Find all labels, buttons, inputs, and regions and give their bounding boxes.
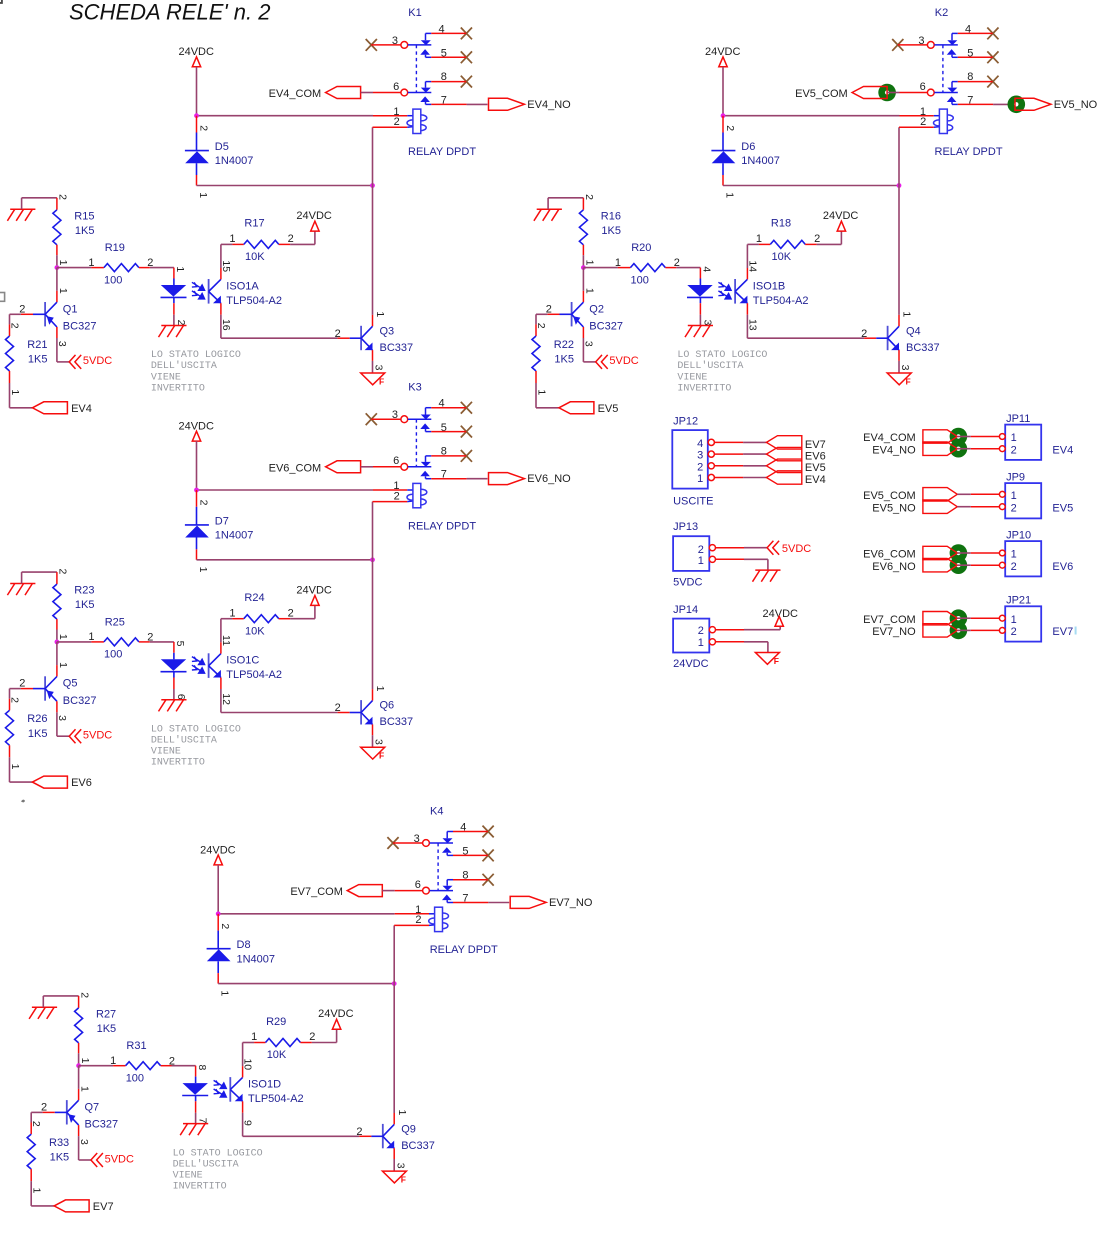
wire relay K3 pin 7 to EV6_NO xyxy=(431,478,466,480)
svg-text:Q7: Q7 xyxy=(85,1102,100,1114)
svg-text:24VDC: 24VDC xyxy=(296,210,332,222)
svg-text:JP10: JP10 xyxy=(1006,530,1031,542)
wire relay K1 pin 3 xyxy=(371,44,401,46)
svg-text:10K: 10K xyxy=(245,625,265,637)
wire EV7_NO to JP21 pin 2 xyxy=(957,629,971,631)
svg-text:EV5: EV5 xyxy=(1052,502,1073,514)
svg-text:EV5_COM: EV5_COM xyxy=(863,490,916,502)
pin circle JP13-1 xyxy=(709,556,715,562)
relay K1 pole 1 circle xyxy=(401,42,408,49)
power symbol 5VDC (Q1) xyxy=(69,355,81,369)
wire R23 pin 1 to node C xyxy=(56,619,58,629)
diode D6 pin 2 stub xyxy=(722,116,724,133)
svg-text:1: 1 xyxy=(88,631,94,643)
relay K1 pole 1 bar xyxy=(408,44,432,46)
wire EV5_COM to relay K2 pin 6 xyxy=(887,92,899,94)
svg-text:12: 12 xyxy=(220,693,232,705)
svg-text:1: 1 xyxy=(9,389,21,395)
connector JP14 body xyxy=(673,619,709,653)
svg-text:9: 9 xyxy=(242,1120,254,1126)
off-page flag EV4_COM xyxy=(326,87,361,99)
svg-text:1: 1 xyxy=(535,389,547,395)
off-page flag EV7_COM xyxy=(347,885,382,897)
svg-text:2: 2 xyxy=(583,194,595,200)
svg-text:EV6: EV6 xyxy=(1052,561,1073,573)
wire node A to relay K1 coil pin 1 xyxy=(197,115,374,117)
svg-text:JP9: JP9 xyxy=(1006,472,1025,484)
wire node C to R19 pin 1 xyxy=(57,267,92,269)
svg-text:1N4007: 1N4007 xyxy=(215,530,254,542)
transistor Q6 BC337 xyxy=(360,700,362,724)
svg-text:5: 5 xyxy=(174,641,186,647)
relay K4 pole 2 bar xyxy=(430,890,454,892)
optocoupler ISO1A light arrows xyxy=(192,282,205,299)
pin circle JP11-2 xyxy=(999,446,1005,452)
power symbol 5VDC (Q7) xyxy=(91,1153,103,1167)
wire EV5_NO to JP9 pin 2 xyxy=(957,506,971,508)
off-page flag EV4_NO (JP11) xyxy=(923,442,957,455)
relay K3 pole 1 bar xyxy=(408,418,432,420)
svg-text:10K: 10K xyxy=(267,1049,287,1061)
svg-text:4: 4 xyxy=(701,266,713,272)
relay K4 pole 1 circle xyxy=(423,840,430,847)
svg-text:2: 2 xyxy=(394,490,400,502)
junction node B (K2) xyxy=(897,183,902,188)
svg-text:EV4_COM: EV4_COM xyxy=(863,432,916,444)
wire node A to relay K2 coil pin 1 xyxy=(723,115,900,117)
svg-text:ISO1A: ISO1A xyxy=(226,280,259,292)
wire ISO1C collector to R24 pin 1 xyxy=(220,642,222,653)
svg-text:2: 2 xyxy=(1011,626,1017,638)
off-page flag EV6 (JP12) xyxy=(766,447,801,460)
off-page flag EV4_COM (JP11) xyxy=(923,430,957,443)
svg-text:F: F xyxy=(379,751,384,761)
svg-text:2: 2 xyxy=(861,328,867,340)
svg-text:2: 2 xyxy=(30,1121,42,1127)
frame mark top-left corner xyxy=(0,0,2,3)
svg-text:1: 1 xyxy=(1011,614,1017,626)
svg-text:6: 6 xyxy=(393,81,399,93)
diode D8 pin 1 stub xyxy=(217,973,219,984)
resistor R33 xyxy=(27,1134,35,1169)
wire R21 pin 1 to EV4 flag xyxy=(9,371,11,383)
svg-text:EV7_COM: EV7_COM xyxy=(863,614,916,626)
junction node A (K2) xyxy=(721,113,726,118)
resistor R31 xyxy=(126,1062,161,1070)
svg-text:1: 1 xyxy=(583,288,595,294)
svg-text:1: 1 xyxy=(79,1086,91,1092)
wire Q3 emitter to ground xyxy=(372,350,374,361)
wire 24VDC feed to node A (K2) xyxy=(722,67,724,116)
svg-text:5VDC: 5VDC xyxy=(105,1153,134,1165)
optocoupler ISO1C light arrows xyxy=(192,657,205,674)
relay K3 pole 2 bar xyxy=(408,466,432,468)
junction node B (K3) xyxy=(370,557,375,562)
off-page flag EV5 (JP12) xyxy=(766,459,801,472)
svg-text:INVERTITO: INVERTITO xyxy=(173,1182,227,1193)
highlight blob at EV7_NO (JP21) xyxy=(950,622,968,640)
pin circle JP12-1 xyxy=(708,474,714,480)
pin circle JP14-1 xyxy=(709,639,715,645)
relay K3 contact 7 arm xyxy=(420,471,430,477)
svg-text:3: 3 xyxy=(414,833,420,845)
svg-text:R33: R33 xyxy=(49,1137,69,1149)
wire R24 pin 2 to 24VDC xyxy=(279,618,290,620)
off-page flag EV5_COM xyxy=(852,87,887,99)
svg-text:BC337: BC337 xyxy=(401,1140,435,1152)
svg-text:INVERTITO: INVERTITO xyxy=(151,383,205,394)
svg-text:K3: K3 xyxy=(408,382,421,394)
junction node C (K1 channel) xyxy=(55,265,60,270)
wire Q2 base to R22 xyxy=(547,313,559,315)
wire JP14 pin 2 to 24VDC xyxy=(716,629,745,631)
optocoupler ISO1C LED xyxy=(173,653,175,660)
wire relay K2 pin 7 to EV5_NO xyxy=(958,103,993,105)
wire corner into ISO1C LED xyxy=(173,642,175,653)
wire diode D6 to node B xyxy=(723,185,899,187)
relay K1 contact 5 arm xyxy=(420,49,430,55)
optocoupler ISO1C phototransistor xyxy=(208,653,210,678)
svg-text:EV6_COM: EV6_COM xyxy=(269,462,322,474)
svg-text:JP21: JP21 xyxy=(1006,595,1031,607)
no-connect X at relay K2 pin 3 xyxy=(892,39,903,51)
diode D5 1N4007 xyxy=(196,133,198,151)
wire node B down to Q4 collector xyxy=(898,186,900,315)
wire R25 pin 2 to ISO1C LED xyxy=(139,641,150,643)
no-connect X at relay K3 pin 3 xyxy=(366,413,377,425)
relay K4 contact 7 arm xyxy=(442,895,452,901)
svg-text:EV5: EV5 xyxy=(598,403,619,415)
svg-text:2: 2 xyxy=(724,125,736,131)
svg-text:EV7_NO: EV7_NO xyxy=(549,897,593,909)
off-page flag EV5 xyxy=(559,402,594,414)
svg-text:1K5: 1K5 xyxy=(601,225,621,237)
ground (slash) at JP13 xyxy=(753,570,781,582)
wire node C to R25 pin 1 xyxy=(57,641,92,643)
svg-text:BC337: BC337 xyxy=(906,342,940,354)
wire relay K3 pin 8 xyxy=(431,455,466,457)
svg-text:10: 10 xyxy=(242,1058,254,1070)
relay K1 pole 2 circle xyxy=(401,89,408,96)
svg-text:13: 13 xyxy=(746,319,758,331)
wire ISO1D collector to R29 pin 1 xyxy=(242,1066,244,1077)
svg-text:VIENE: VIENE xyxy=(151,747,181,758)
wire R19 pin 2 to ISO1A LED xyxy=(139,267,150,269)
svg-text:TLP504-A2: TLP504-A2 xyxy=(248,1093,304,1105)
wire EV4_COM to relay K1 pin 6 xyxy=(361,92,373,94)
ground (slash) at ISO1A LED xyxy=(159,326,187,338)
stray mark bottom-left xyxy=(21,800,25,803)
relay K3 coil xyxy=(416,489,427,495)
transistor Q2 BC327 xyxy=(571,302,573,326)
wire EV4_NO to JP11 pin 2 xyxy=(957,448,971,450)
relay K2 contact 8 arm xyxy=(952,81,958,83)
diode D5 pin 2 stub xyxy=(196,116,198,133)
svg-text:EV4: EV4 xyxy=(1052,444,1073,456)
svg-text:3: 3 xyxy=(899,365,911,371)
svg-text:F: F xyxy=(401,1174,406,1184)
wire ground to R16 pin 2 xyxy=(547,198,549,209)
svg-text:1K5: 1K5 xyxy=(554,354,574,366)
no-connect X at relay K1 pin 3 xyxy=(366,39,377,51)
relay K1 contact 8 arm xyxy=(426,81,432,83)
relay K2 pole 1 circle xyxy=(927,42,934,49)
optocoupler ISO1B LED xyxy=(699,279,701,286)
connector JP12 body xyxy=(672,430,708,489)
relay K1 contact 4 arm xyxy=(425,33,427,40)
relay K2 contact 5 arm xyxy=(947,49,957,55)
svg-text:1: 1 xyxy=(374,686,386,692)
off-page flag EV7 xyxy=(54,1200,89,1212)
wire Q7 emitter to 5VDC xyxy=(78,1125,80,1136)
svg-text:R24: R24 xyxy=(244,592,264,604)
resistor R29 xyxy=(266,1039,301,1047)
svg-text:2: 2 xyxy=(415,914,421,926)
svg-text:1: 1 xyxy=(584,260,596,266)
svg-text:100: 100 xyxy=(126,1073,144,1085)
svg-text:R29: R29 xyxy=(266,1016,286,1028)
svg-text:EV7: EV7 xyxy=(805,439,826,451)
relay K4 coil xyxy=(437,913,448,919)
svg-text:RELAY DPDT: RELAY DPDT xyxy=(935,146,1003,158)
wire R27 pin 1 to node C xyxy=(78,1043,80,1053)
svg-text:3: 3 xyxy=(56,341,68,347)
svg-text:DELL'USCITA: DELL'USCITA xyxy=(677,360,743,372)
ground (slash) at R23 top xyxy=(7,584,35,596)
wire relay K4 pin 4 xyxy=(453,831,488,833)
optocoupler ISO1B light arrows xyxy=(718,282,731,299)
relay K4 pole 2 circle xyxy=(423,887,430,894)
off-page flag EV5_NO (JP9) xyxy=(923,500,957,513)
resistor R25 xyxy=(104,638,139,646)
svg-text:R23: R23 xyxy=(74,585,94,597)
relay K4 contact 4 arm xyxy=(446,832,448,839)
wire JP12 pin 2 to EV5 xyxy=(714,465,743,467)
svg-text:1: 1 xyxy=(396,1109,408,1115)
relay K2 pole 2 circle xyxy=(927,89,934,96)
svg-text:Q9: Q9 xyxy=(401,1123,416,1135)
svg-text:4: 4 xyxy=(697,438,703,450)
wire relay K2 pin 3 xyxy=(898,44,928,46)
relay K3 contact 5 arm xyxy=(420,423,430,429)
off-page flag EV6_NO (JP10) xyxy=(923,559,957,572)
wire JP13 pin 1 to ground xyxy=(716,558,745,560)
diode D8 pin 2 stub xyxy=(217,914,219,931)
svg-text:LO STATO LOGICO: LO STATO LOGICO xyxy=(151,350,241,361)
wire node B down to Q9 collector xyxy=(393,984,395,1113)
svg-text:1K5: 1K5 xyxy=(75,225,95,237)
svg-text:ISO1B: ISO1B xyxy=(753,280,785,292)
svg-text:8: 8 xyxy=(196,1064,208,1070)
svg-text:3: 3 xyxy=(373,739,385,745)
resistor R20 xyxy=(630,264,665,272)
svg-text:1K5: 1K5 xyxy=(50,1152,70,1164)
connector JP9 body xyxy=(1005,483,1041,518)
resistor R26 xyxy=(6,710,14,745)
stray mark after EV7 label xyxy=(1075,627,1077,635)
svg-text:VIENE: VIENE xyxy=(151,372,181,383)
svg-text:EV4_NO: EV4_NO xyxy=(527,99,571,111)
pin circle JP13-2 xyxy=(709,545,715,551)
no-connect X at relay K2 pin 4 xyxy=(987,28,998,40)
wire node C to R20 pin 1 xyxy=(583,267,618,269)
relay K2 armature link (dashed) xyxy=(942,45,944,93)
wire node C down to Q2 xyxy=(582,268,584,291)
wire relay K3 pin 3 xyxy=(371,418,401,420)
svg-text:6: 6 xyxy=(175,694,187,700)
wire ISO1C LED cathode to ground xyxy=(173,678,175,690)
wire ISO1A emitter to Q3 base xyxy=(220,303,222,315)
svg-text:D8: D8 xyxy=(237,939,251,951)
optocoupler ISO1B phototransistor xyxy=(734,279,736,304)
wire relay K3 pin 5 xyxy=(431,431,466,433)
svg-text:1: 1 xyxy=(1011,490,1017,502)
no-connect X at relay K2 pin 8 xyxy=(987,76,998,88)
svg-text:EV7_NO: EV7_NO xyxy=(872,626,916,638)
ground (F triangle) at Q3 xyxy=(361,373,385,385)
svg-text:LO STATO LOGICO: LO STATO LOGICO xyxy=(677,350,767,361)
diode D7 pin 1 stub xyxy=(196,549,198,560)
relay K4 armature link (dashed) xyxy=(437,843,439,891)
svg-text:R16: R16 xyxy=(601,210,621,222)
wire JP14 pin 1 to ground xyxy=(716,641,745,643)
svg-text:R25: R25 xyxy=(105,616,125,628)
svg-text:RELAY DPDT: RELAY DPDT xyxy=(408,146,476,158)
highlight blob at EV6_NO (JP10) xyxy=(950,556,968,574)
transistor Q4 BC337 xyxy=(887,326,889,350)
svg-text:ISO1C: ISO1C xyxy=(226,655,259,667)
svg-text:24VDC: 24VDC xyxy=(296,584,332,596)
svg-text:1: 1 xyxy=(57,288,69,294)
pin circle JP9-1 xyxy=(999,491,1005,497)
ground (slash) at R16 top xyxy=(534,209,562,221)
wire EV4_COM to JP11 pin 1 xyxy=(957,436,971,438)
svg-text:5VDC: 5VDC xyxy=(609,355,638,367)
off-page flag EV6_COM xyxy=(326,461,361,473)
svg-text:BC337: BC337 xyxy=(380,716,414,728)
svg-text:1K5: 1K5 xyxy=(28,354,48,366)
svg-text:BC327: BC327 xyxy=(589,321,623,333)
svg-text:D7: D7 xyxy=(215,515,229,527)
relay K4 pole 1 bar xyxy=(430,842,454,844)
svg-text:1: 1 xyxy=(174,266,186,272)
transistor Q9 BC337 xyxy=(382,1124,384,1148)
svg-text:USCITE: USCITE xyxy=(673,496,713,508)
pin circle JP21-1 xyxy=(999,615,1005,621)
svg-text:EV5: EV5 xyxy=(805,462,826,474)
svg-text:3: 3 xyxy=(373,365,385,371)
relay K2 contact 7 arm xyxy=(947,96,957,102)
no-connect X at relay K3 pin 8 xyxy=(461,450,472,462)
svg-text:K4: K4 xyxy=(430,805,443,817)
pin circle JP11-1 xyxy=(999,434,1005,440)
svg-text:2: 2 xyxy=(57,568,69,574)
svg-text:1: 1 xyxy=(88,257,94,269)
off-page flag EV6_NO xyxy=(489,473,525,485)
svg-text:2: 2 xyxy=(697,461,703,473)
svg-text:Q6: Q6 xyxy=(380,700,395,712)
svg-text:VIENE: VIENE xyxy=(677,372,707,383)
svg-text:2: 2 xyxy=(394,116,400,128)
junction node B (K1) xyxy=(370,183,375,188)
wire R33 pin 1 to EV7 flag xyxy=(30,1169,32,1181)
svg-text:2: 2 xyxy=(1011,444,1017,456)
wire R22 pin 1 to EV5 flag xyxy=(535,371,537,383)
relay K1 pole 2 bar xyxy=(408,92,432,94)
connector JP21 body xyxy=(1005,606,1041,641)
wire node B up to relay K1 coil pin 2 xyxy=(372,127,374,185)
svg-text:24VDC: 24VDC xyxy=(318,1008,354,1020)
frame mark left edge xyxy=(0,293,5,302)
wire relay K1 pin 7 to EV4_NO xyxy=(431,103,466,105)
wire node B down to Q3 collector xyxy=(372,186,374,315)
svg-text:1: 1 xyxy=(697,473,703,485)
svg-text:1: 1 xyxy=(698,555,704,567)
svg-text:2: 2 xyxy=(698,625,704,637)
wire ISO1A LED cathode to ground xyxy=(173,303,175,315)
wire relay K2 pin 5 xyxy=(958,56,993,58)
wire JP12 pin 1 to EV4 xyxy=(714,477,743,479)
svg-text:EV4_COM: EV4_COM xyxy=(269,88,322,100)
no-connect X at relay K4 pin 4 xyxy=(483,826,494,838)
svg-text:EV6: EV6 xyxy=(805,451,826,463)
svg-text:3: 3 xyxy=(394,1163,406,1169)
svg-text:3: 3 xyxy=(583,341,595,347)
svg-text:BC327: BC327 xyxy=(85,1119,119,1131)
svg-text:R22: R22 xyxy=(554,339,574,351)
ground (F triangle) at JP14 xyxy=(755,653,779,665)
svg-text:2: 2 xyxy=(1011,502,1017,514)
ground (slash) at ISO1B LED xyxy=(685,326,713,338)
wire R29 pin 2 to 24VDC xyxy=(300,1042,311,1044)
diode D6 1N4007 xyxy=(722,133,724,151)
relay K2 pole 2 bar xyxy=(934,92,958,94)
wire ISO1A collector to R17 pin 1 xyxy=(220,268,222,279)
no-connect X at relay K1 pin 4 xyxy=(461,28,472,40)
wire ISO1D LED cathode to ground xyxy=(195,1101,197,1113)
svg-text:24VDC: 24VDC xyxy=(823,210,859,222)
svg-text:1: 1 xyxy=(756,233,762,245)
pin circle JP9-2 xyxy=(999,504,1005,510)
svg-text:3: 3 xyxy=(918,35,924,47)
wire ground to R23 pin 2 xyxy=(21,572,23,583)
wire 24VDC feed to node A (K1) xyxy=(196,67,198,116)
svg-text:EV6_NO: EV6_NO xyxy=(527,473,571,485)
svg-text:14: 14 xyxy=(746,260,758,272)
svg-text:2: 2 xyxy=(219,923,231,929)
svg-text:TLP504-A2: TLP504-A2 xyxy=(226,669,282,681)
svg-text:2: 2 xyxy=(288,607,294,619)
connector JP10 body xyxy=(1005,541,1041,576)
wire relay K1 pin 8 xyxy=(431,81,466,83)
wire R18 pin 2 to 24VDC xyxy=(805,243,816,245)
junction node A (K4) xyxy=(216,911,221,916)
optocoupler ISO1A phototransistor xyxy=(208,279,210,304)
svg-text:K1: K1 xyxy=(408,7,421,19)
wire diode D8 to node B xyxy=(218,983,394,985)
pin circle JP14-2 xyxy=(709,627,715,633)
wire node C down to Q5 xyxy=(56,642,58,665)
svg-text:1: 1 xyxy=(79,1058,91,1064)
wire EV7_COM to JP21 pin 1 xyxy=(957,617,971,619)
svg-text:2: 2 xyxy=(198,125,210,131)
junction node C (K2 channel) xyxy=(581,265,586,270)
svg-text:1: 1 xyxy=(1011,432,1017,444)
off-page flag EV7_NO (JP21) xyxy=(923,624,957,637)
relay K2 pole 1 bar xyxy=(934,44,958,46)
off-page flag EV6 xyxy=(32,776,67,788)
resistor R24 xyxy=(244,615,279,623)
